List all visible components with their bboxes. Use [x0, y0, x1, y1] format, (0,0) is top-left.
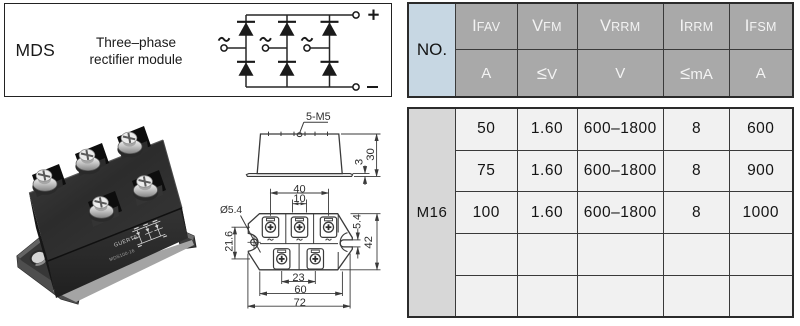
diode D5 — [278, 62, 296, 76]
spec table header — [407, 2, 794, 98]
diode D6 — [321, 62, 339, 76]
product family label MDS — [16, 40, 56, 61]
AC input wire 3 — [310, 47, 329, 49]
title box frame — [4, 3, 393, 97]
dimension 21.6 — [223, 227, 250, 259]
terminal tower B1 — [32, 164, 66, 197]
product photo: MDS rectifier module — [5, 118, 215, 318]
svg-text:3: 3 — [354, 159, 366, 165]
title text — [86, 34, 186, 68]
svg-text:30: 30 — [365, 148, 377, 161]
terminal pad T3 — [320, 217, 336, 240]
terminal screw B3 — [117, 132, 142, 157]
three-phase bridge rectifier schematic — [216, 4, 388, 96]
terminal pad T5 — [307, 249, 323, 269]
part number label MDS100-16 — [109, 248, 136, 262]
top rail (+ bus) wire — [246, 14, 356, 16]
technical drawing: outline drawing with dimensions — [216, 106, 400, 326]
module body left face — [29, 193, 56, 298]
svg-text:23: 23 — [292, 272, 304, 284]
module body front face — [48, 208, 188, 298]
dimension 10 — [293, 193, 307, 213]
bottom rail (- bus) wire — [246, 86, 356, 88]
leg 1 wire — [245, 15, 247, 87]
dimension 3 (plate thickness) — [353, 159, 370, 185]
printed circuit legend on case — [129, 219, 167, 248]
dimension 72 — [248, 254, 350, 309]
leg 2 wire — [286, 15, 288, 87]
leg 3 wire — [329, 15, 331, 87]
AC terminal 2 — [260, 38, 271, 51]
terminal tower B3 — [117, 126, 151, 159]
side view base plate — [246, 174, 352, 177]
terminal screw F2 — [133, 176, 158, 201]
AC terminal 3 — [302, 38, 313, 51]
svg-text:Ø5.4: Ø5.4 — [220, 205, 242, 216]
mounting flange with hole — [17, 230, 80, 304]
dimension 30 (module height) — [341, 134, 381, 176]
dimension 40 — [271, 183, 329, 215]
negative DC terminal — [353, 84, 378, 90]
terminal screw F1 — [89, 197, 114, 222]
terminal pad T4 — [274, 249, 290, 269]
terminal tower F1 — [88, 191, 122, 227]
AC input wire 1 — [227, 47, 246, 49]
module body top face — [29, 140, 182, 261]
AC terminal 1 — [219, 38, 230, 51]
dimension 42 — [340, 214, 381, 270]
svg-text:42: 42 — [363, 236, 375, 249]
spec table body — [407, 107, 794, 318]
svg-text:5.4: 5.4 — [351, 214, 363, 229]
terminal pad T2 — [291, 217, 307, 240]
svg-text:5-M5: 5-M5 — [306, 111, 331, 123]
dimension 60 — [260, 272, 343, 297]
diode D4 — [237, 62, 255, 76]
brand label GUERTE — [113, 234, 139, 249]
module body right face — [163, 140, 188, 238]
terminal tower F2 — [132, 170, 166, 206]
side view module body — [257, 132, 342, 174]
terminal screw B2 — [75, 149, 100, 174]
label diameter 5.4 with leader — [220, 205, 261, 252]
positive DC terminal — [353, 10, 379, 20]
dimension 5.4 — [351, 214, 363, 258]
AC input wire 2 — [269, 47, 287, 49]
base plate bright edge — [53, 240, 194, 302]
svg-text:60: 60 — [294, 284, 306, 296]
diode D1 — [237, 22, 255, 36]
diode D3 — [321, 22, 339, 36]
diode D2 — [278, 22, 296, 36]
label 5-M5 with leader — [300, 111, 331, 133]
svg-text:72: 72 — [294, 297, 306, 309]
right flange tip — [176, 228, 196, 249]
mounting hole left — [248, 236, 261, 249]
mounting slot right — [352, 240, 360, 247]
terminal tower B2 — [75, 143, 109, 176]
dimension 23 — [282, 271, 316, 284]
svg-text:10: 10 — [293, 193, 305, 205]
svg-text:21.6: 21.6 — [223, 231, 235, 252]
top view module outline — [248, 214, 352, 270]
terminal pad T1 — [262, 217, 278, 240]
terminal screw B1 — [32, 170, 57, 195]
